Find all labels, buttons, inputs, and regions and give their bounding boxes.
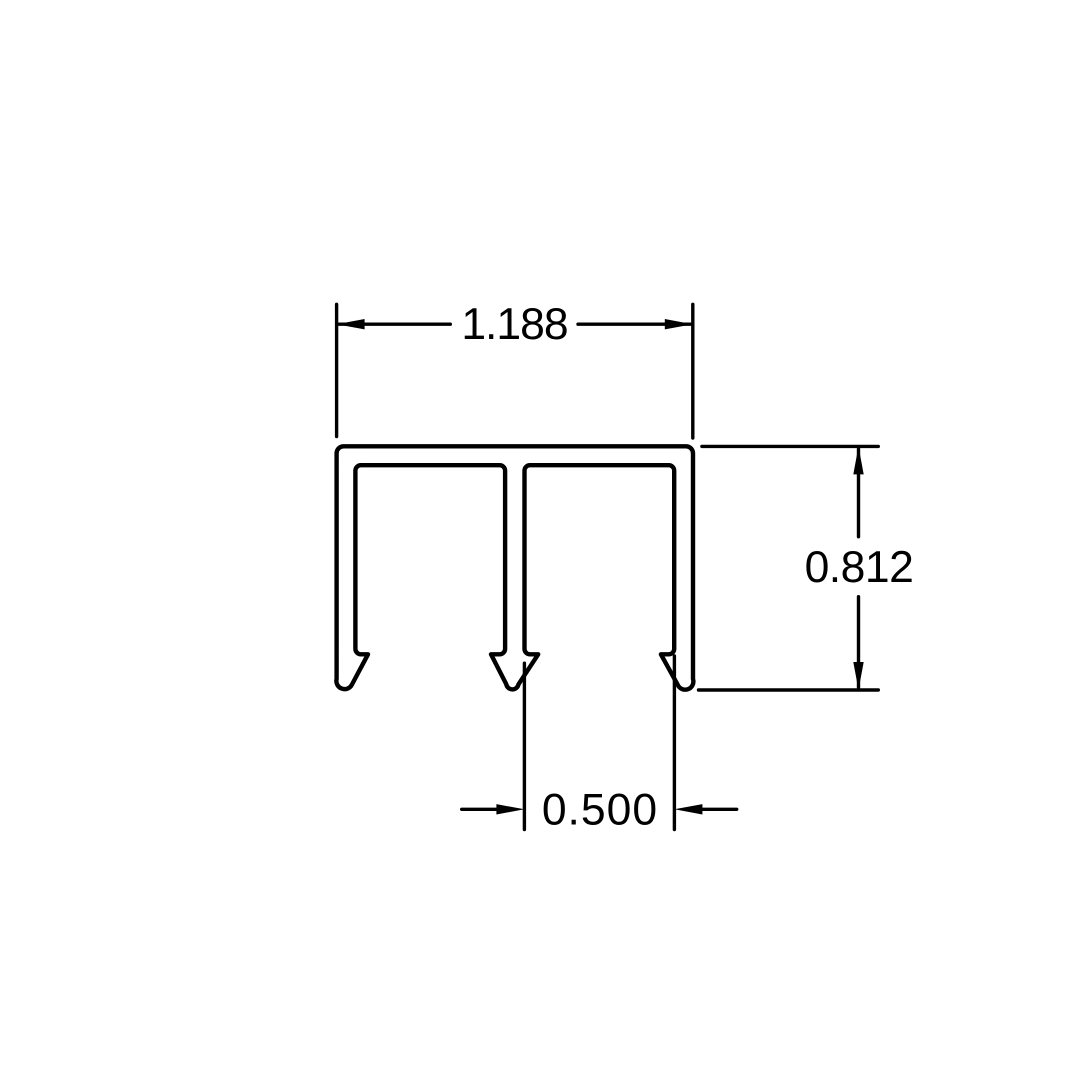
arrow left of 1.188 bbox=[337, 319, 365, 329]
dim line lower segment bbox=[857, 597, 860, 688]
extension line bottom bbox=[699, 688, 879, 691]
extension line from middle leg notch bbox=[523, 663, 526, 829]
svg-text:1.188: 1.188 bbox=[461, 300, 567, 349]
arrow down of 0.812 bbox=[853, 662, 863, 690]
extrusion profile outline (double channel track cross-section) bbox=[336, 446, 693, 689]
svg-text:0.500: 0.500 bbox=[542, 785, 658, 834]
dim line right segment bbox=[578, 323, 691, 326]
extension line right bbox=[691, 304, 694, 438]
arrow pointing left at right ext line bbox=[674, 804, 702, 814]
dim line left segment bbox=[339, 323, 450, 326]
dimension 0.500 (bottom) bbox=[462, 656, 737, 830]
extension line from right leg inner wall bbox=[673, 656, 676, 830]
arrow tail right bbox=[702, 808, 737, 811]
dimension 1.188 (top) bbox=[337, 304, 693, 438]
dimension 0.812 (right) bbox=[699, 446, 879, 690]
extension line top bbox=[702, 445, 878, 448]
svg-text:0.812: 0.812 bbox=[805, 543, 914, 592]
arrow pointing right at left ext line bbox=[496, 804, 524, 814]
extension line left bbox=[335, 304, 338, 436]
arrow up of 0.812 bbox=[853, 446, 863, 474]
arrow tail left bbox=[462, 808, 497, 811]
arrow right of 1.188 bbox=[665, 319, 693, 329]
dim line upper segment bbox=[857, 449, 860, 537]
